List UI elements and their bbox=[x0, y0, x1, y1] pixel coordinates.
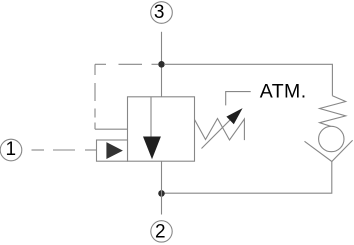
check valve spring bbox=[320, 96, 346, 127]
wire from valve body to port 2 bbox=[161, 161, 163, 214]
pilot triangle bbox=[106, 142, 123, 159]
pilot box bbox=[97, 140, 128, 161]
pilot line into valve body left bbox=[95, 128, 128, 130]
check valve ball bbox=[319, 126, 344, 151]
port 3 bbox=[151, 2, 173, 24]
svg-text:3: 3 bbox=[154, 2, 165, 23]
check valve seat bbox=[305, 140, 353, 161]
leader line to ATM label bbox=[226, 92, 251, 106]
junction node at top bbox=[158, 61, 165, 68]
wire from junction to right rail bbox=[164, 64, 332, 96]
port 2 bbox=[151, 221, 172, 242]
wire from port 3 to valve body bbox=[161, 32, 163, 97]
svg-text:ATM.: ATM. bbox=[260, 81, 307, 103]
svg-text:2: 2 bbox=[155, 222, 166, 243]
flow path line inside valve bbox=[150, 97, 152, 137]
relief spring bbox=[195, 119, 245, 141]
dashed pilot line vertical at left bbox=[94, 64, 96, 129]
junction node at bottom bbox=[158, 190, 165, 197]
adjustment arrow head bbox=[226, 108, 242, 124]
wire right rail down to bottom corner bbox=[164, 162, 332, 194]
svg-text:1: 1 bbox=[6, 139, 17, 160]
adjustment arrow shaft bbox=[202, 117, 234, 149]
dashed pilot line horizontal from corner to junction bbox=[95, 63, 158, 65]
port 1 bbox=[0, 139, 22, 161]
dashed pilot line from port 1 to pilot box bbox=[32, 149, 97, 151]
valve body bbox=[128, 97, 195, 161]
flow path arrow bbox=[143, 137, 161, 160]
